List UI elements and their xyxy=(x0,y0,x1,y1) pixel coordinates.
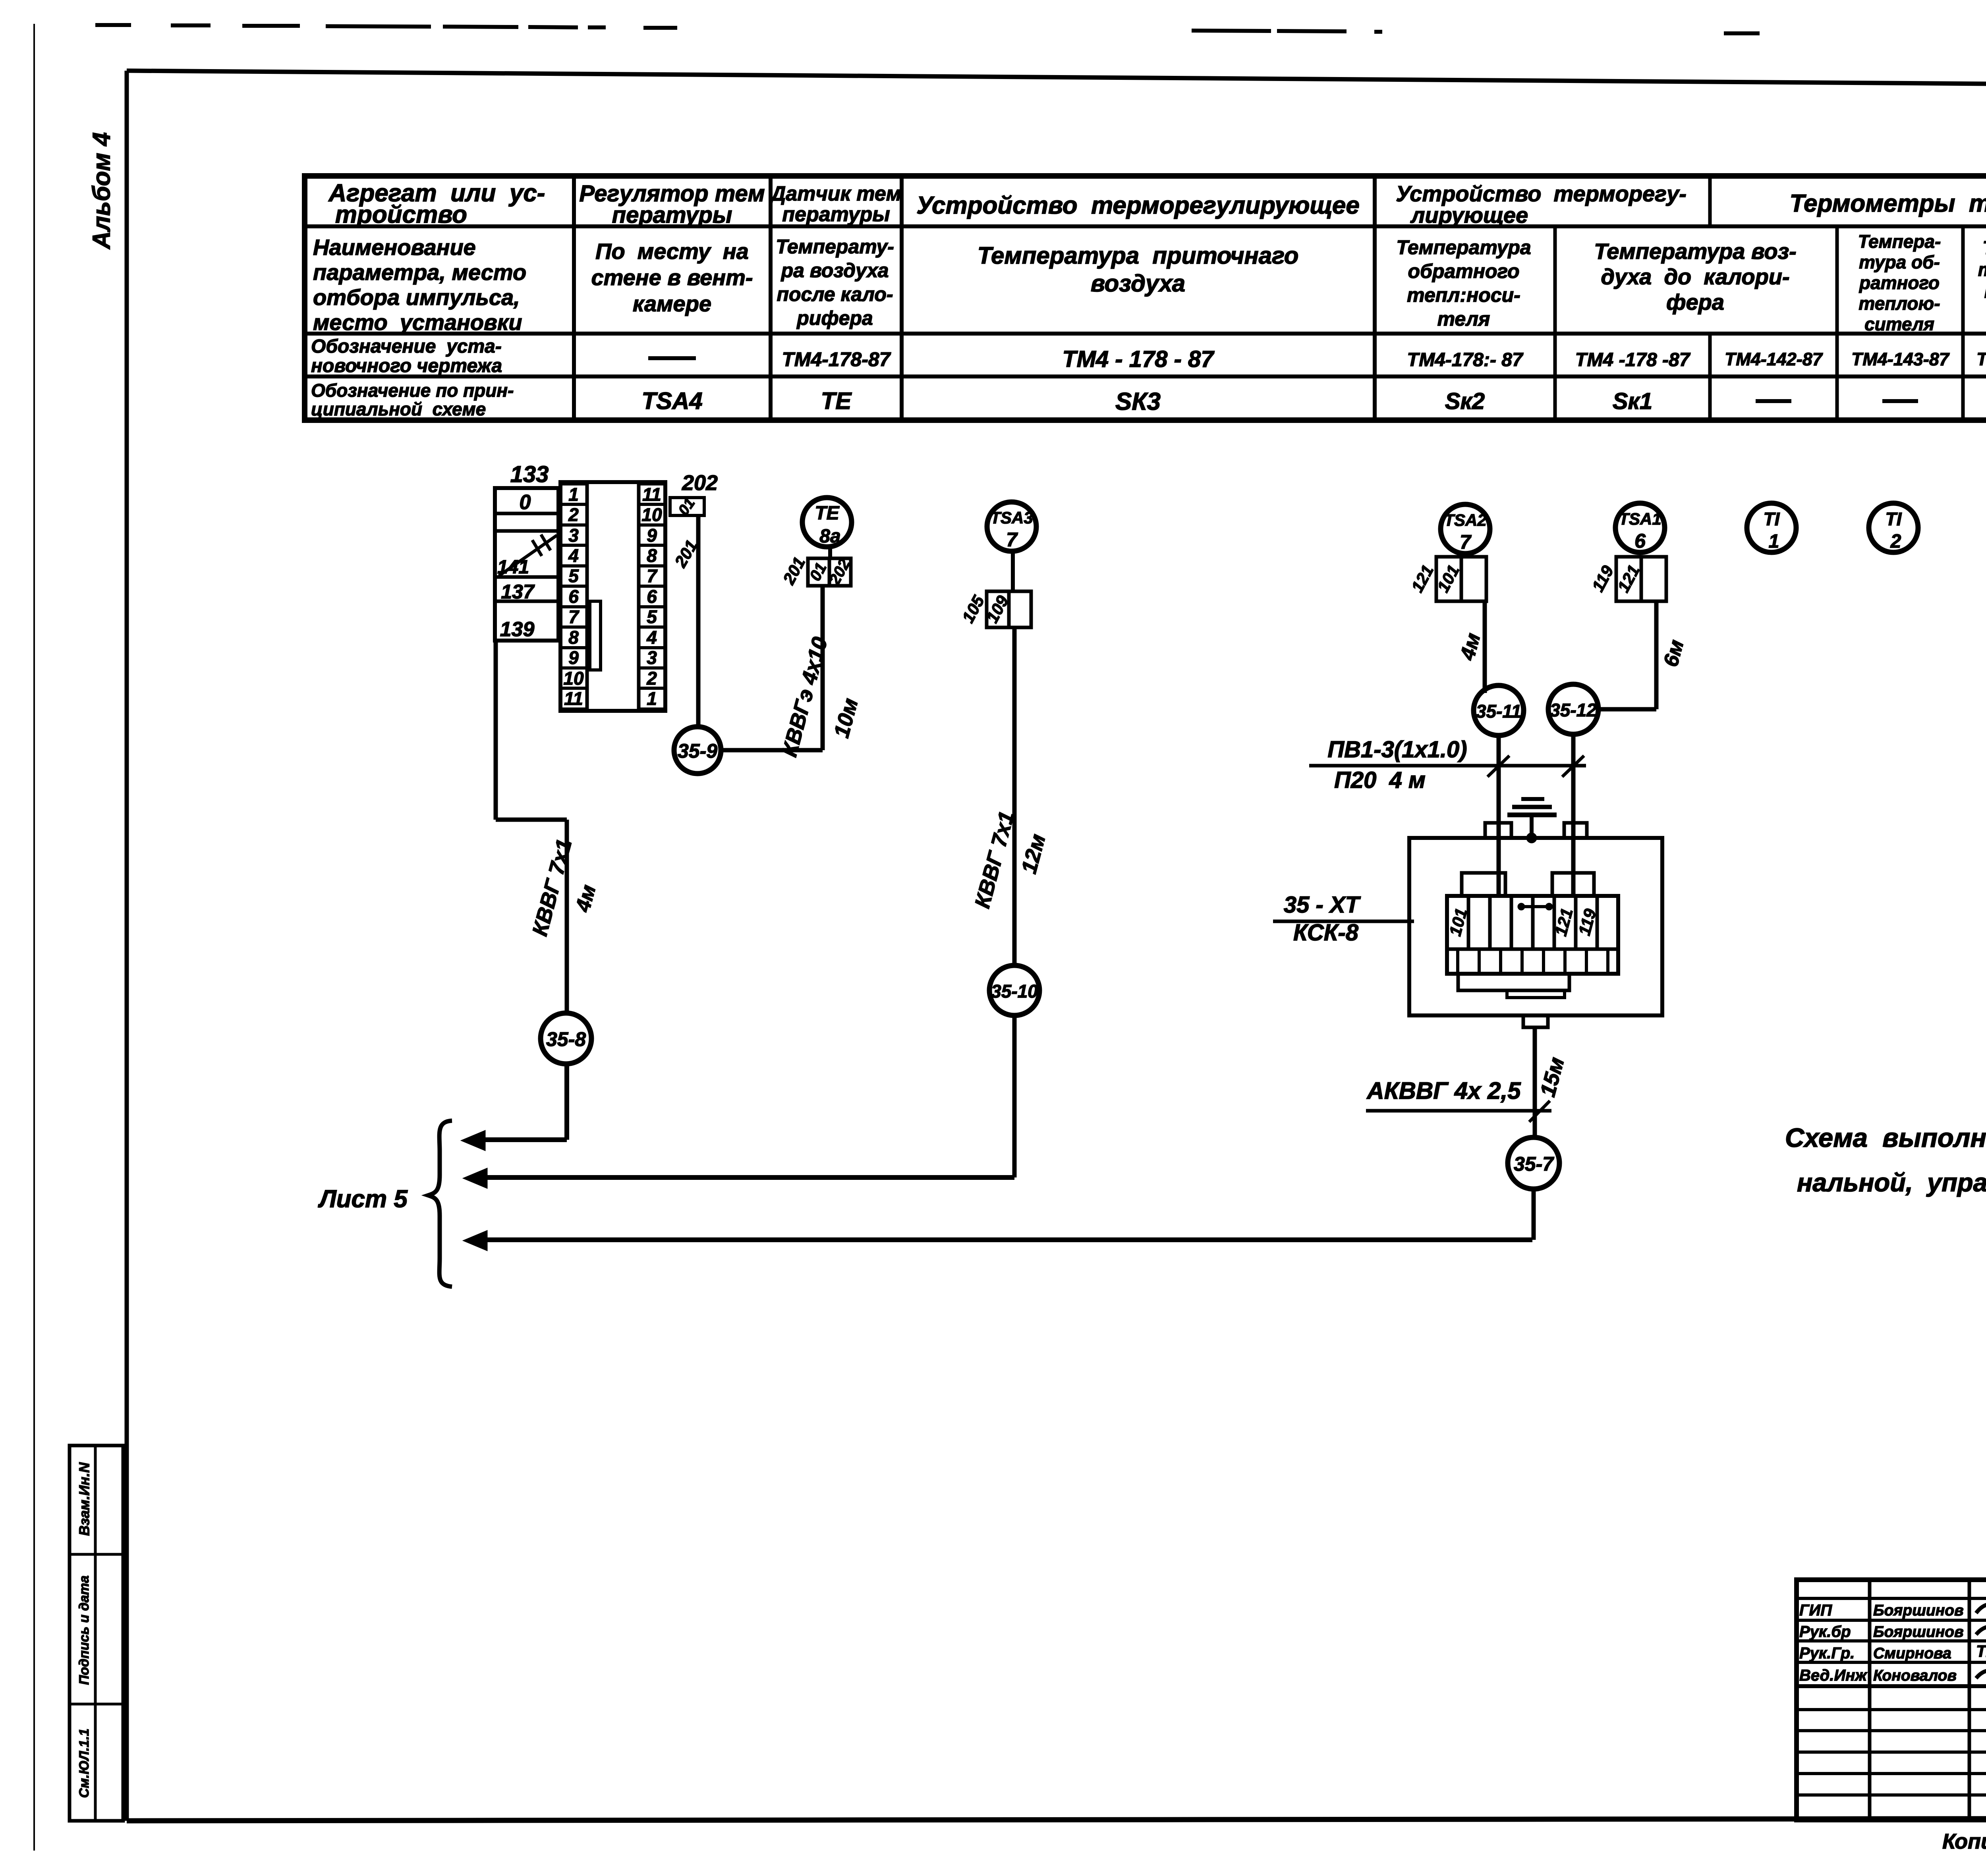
svg-text:Бояршинов: Бояршинов xyxy=(1873,1602,1964,1619)
svg-text:Копировал: Копировал xyxy=(1942,1830,1986,1853)
svg-text:Температура воз-: Температура воз- xyxy=(1594,239,1797,264)
svg-text:139: 139 xyxy=(500,618,535,641)
svg-text:8: 8 xyxy=(568,627,579,648)
svg-text:АКВВГ 4х 2,5: АКВВГ 4х 2,5 xyxy=(1366,1077,1521,1104)
svg-text:3: 3 xyxy=(647,647,657,668)
svg-text:7: 7 xyxy=(647,566,658,586)
svg-text:ципиальной схеме: ципиальной схеме xyxy=(311,399,486,419)
svg-text:Термометры технические: Термометры технические xyxy=(1790,190,1986,217)
svg-text:1: 1 xyxy=(1769,531,1779,552)
svg-text:TSA2: TSA2 xyxy=(1444,511,1486,529)
svg-text:ТЕ: ТЕ xyxy=(815,503,840,524)
svg-text:4: 4 xyxy=(646,627,657,648)
svg-text:35-8: 35-8 xyxy=(546,1028,586,1050)
svg-text:сителя: сителя xyxy=(1864,314,1934,334)
svg-text:КСК-8: КСК-8 xyxy=(1293,920,1359,946)
svg-text:35-12: 35-12 xyxy=(1550,700,1597,720)
svg-text:8: 8 xyxy=(647,545,657,566)
svg-text:5: 5 xyxy=(568,566,579,586)
svg-text:ратного: ратного xyxy=(1858,272,1940,293)
svg-text:воздуха: воздуха xyxy=(1091,270,1185,297)
svg-text:ТМ4-142-87: ТМ4-142-87 xyxy=(1725,349,1823,369)
svg-text:ТМ4-178-87: ТМ4-178-87 xyxy=(782,348,891,371)
svg-text:Схема выполнена на основани: Схема выполнена на основании схем функци… xyxy=(1785,1123,1986,1153)
svg-text:202: 202 xyxy=(682,471,718,495)
svg-text:7: 7 xyxy=(568,606,580,627)
svg-text:7: 7 xyxy=(1460,531,1472,553)
svg-text:6: 6 xyxy=(647,586,657,607)
svg-text:камере: камере xyxy=(633,291,711,316)
svg-text:после кало-: после кало- xyxy=(777,283,893,305)
svg-text:Температура приточнаго: Температура приточнаго xyxy=(978,242,1299,269)
svg-text:7: 7 xyxy=(1006,529,1018,551)
svg-text:Температура: Температура xyxy=(1396,236,1531,259)
svg-text:См.ЮЛ.1.1: См.ЮЛ.1.1 xyxy=(77,1729,92,1798)
svg-text:Обозначение уста-: Обозначение уста- xyxy=(311,336,502,357)
svg-text:6: 6 xyxy=(1634,530,1646,552)
svg-text:TSA4: TSA4 xyxy=(641,388,702,414)
svg-text:Бояршинов: Бояршинов xyxy=(1873,1623,1964,1641)
svg-text:нальной, управления и регул: нальной, управления и регулирования лист… xyxy=(1797,1168,1986,1197)
svg-text:Подпись и дата: Подпись и дата xyxy=(77,1575,92,1685)
svg-text:рифера: рифера xyxy=(796,307,873,329)
svg-text:3: 3 xyxy=(568,525,579,546)
svg-text:тура об-: тура об- xyxy=(1859,252,1940,272)
svg-text:5: 5 xyxy=(647,606,657,627)
svg-text:ТI: ТI xyxy=(1764,509,1780,529)
svg-text:35-7: 35-7 xyxy=(1514,1153,1554,1175)
svg-text:ТI: ТI xyxy=(1886,509,1902,529)
svg-text:0: 0 xyxy=(520,491,531,514)
svg-text:35 - ХТ: 35 - ХТ xyxy=(1284,892,1361,918)
svg-text:Смирнова: Смирнова xyxy=(1873,1645,1951,1662)
svg-text:Устройство терморегулирующее: Устройство терморегулирующее xyxy=(916,192,1360,219)
svg-text:ра воздуха: ра воздуха xyxy=(780,259,889,282)
svg-text:Sк1: Sк1 xyxy=(1613,388,1652,414)
svg-text:11: 11 xyxy=(564,688,583,709)
svg-text:Sк2: Sк2 xyxy=(1445,388,1485,414)
svg-text:10: 10 xyxy=(641,504,662,525)
svg-text:пературы: пературы xyxy=(782,203,890,226)
svg-text:1: 1 xyxy=(568,484,579,505)
svg-text:Т.Ю.,: Т.Ю., xyxy=(1976,1642,1986,1660)
svg-text:По месту на: По месту на xyxy=(595,239,749,264)
svg-text:П20 4 м: П20 4 м xyxy=(1334,767,1426,793)
svg-text:ТМ4-143-87: ТМ4-143-87 xyxy=(1851,349,1950,369)
svg-text:отбора импульса,: отбора импульса, xyxy=(313,285,520,310)
svg-text:ТЕ: ТЕ xyxy=(821,388,852,414)
svg-text:35-9: 35-9 xyxy=(678,740,717,762)
svg-text:обратного: обратного xyxy=(1408,260,1519,282)
svg-text:8а: 8а xyxy=(819,526,840,547)
svg-text:теплою-: теплою- xyxy=(1858,293,1940,314)
svg-text:духа до калори-: духа до калори- xyxy=(1601,264,1789,289)
svg-text:4: 4 xyxy=(568,545,579,566)
svg-text:9: 9 xyxy=(568,647,579,668)
svg-text:теля: теля xyxy=(1437,308,1490,330)
svg-text:тура при-: тура при- xyxy=(1978,259,1986,280)
svg-text:10: 10 xyxy=(563,668,584,689)
svg-text:точного: точного xyxy=(1984,281,1986,302)
svg-text:Датчик тем: Датчик тем xyxy=(769,182,902,205)
svg-text:фера: фера xyxy=(1666,290,1724,315)
svg-text:SК3: SК3 xyxy=(1115,388,1161,415)
svg-text:Вед.Инж: Вед.Инж xyxy=(1799,1667,1868,1684)
svg-text:TSA3: TSA3 xyxy=(990,508,1033,527)
svg-text:Лист 5: Лист 5 xyxy=(318,1185,408,1213)
svg-text:ТМ4 - 178 - 87: ТМ4 - 178 - 87 xyxy=(1062,346,1215,372)
svg-text:Температу-: Температу- xyxy=(776,235,894,258)
svg-text:137: 137 xyxy=(501,581,535,603)
svg-text:Наименование: Наименование xyxy=(313,235,476,260)
svg-text:ТМ4-142-87: ТМ4-142-87 xyxy=(1976,349,1986,369)
svg-text:параметра, место: параметра, место xyxy=(313,260,526,285)
svg-text:Обозначение по прин-: Обозначение по прин- xyxy=(311,380,514,401)
svg-text:9: 9 xyxy=(647,525,657,546)
svg-text:тройство: тройство xyxy=(335,201,467,228)
svg-text:пературы: пературы xyxy=(612,202,732,228)
svg-text:2: 2 xyxy=(568,504,579,525)
svg-text:Темпера-: Темпера- xyxy=(1858,231,1941,252)
svg-text:Альбом 4: Альбом 4 xyxy=(88,132,116,250)
svg-text:TSA1: TSA1 xyxy=(1619,510,1661,528)
svg-text:1: 1 xyxy=(647,688,657,709)
svg-text:Взам.Ин.N: Взам.Ин.N xyxy=(76,1462,93,1536)
svg-text:Рук.Гр.: Рук.Гр. xyxy=(1799,1644,1855,1662)
svg-text:35-10: 35-10 xyxy=(991,981,1038,1002)
svg-text:тепл:носи-: тепл:носи- xyxy=(1407,284,1520,306)
svg-text:6: 6 xyxy=(568,586,579,607)
svg-text:лирующее: лирующее xyxy=(1410,203,1528,228)
svg-text:Темпера-: Темпера- xyxy=(1982,237,1986,258)
svg-text:11: 11 xyxy=(642,484,661,505)
svg-text:стене в вент-: стене в вент- xyxy=(591,265,753,290)
svg-text:ГИП: ГИП xyxy=(1799,1602,1832,1619)
svg-text:2: 2 xyxy=(646,668,657,689)
svg-text:2: 2 xyxy=(1890,531,1901,552)
svg-text:место установки: место установки xyxy=(313,310,522,335)
svg-text:ТМ4-178:- 87: ТМ4-178:- 87 xyxy=(1407,349,1524,371)
svg-text:Рук.бр: Рук.бр xyxy=(1799,1623,1851,1641)
svg-text:35-11: 35-11 xyxy=(1476,701,1521,722)
svg-text:Коновалов: Коновалов xyxy=(1873,1667,1957,1684)
svg-text:новочного чертежа: новочного чертежа xyxy=(311,355,502,376)
svg-text:ТМ4 -178 -87: ТМ4 -178 -87 xyxy=(1575,349,1691,371)
svg-text:ПВ1-3(1х1.0): ПВ1-3(1х1.0) xyxy=(1327,737,1467,762)
svg-text:133: 133 xyxy=(510,461,549,487)
